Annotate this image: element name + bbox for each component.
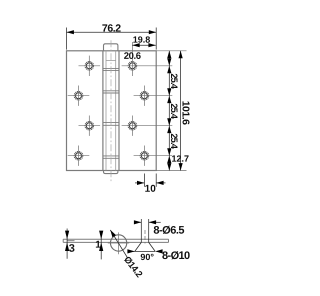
dimension 76.2	[66, 28, 68, 50]
dimension 101.6	[180, 51, 182, 171]
svg-text:90°: 90°	[140, 252, 154, 262]
dimension 8-O10 / angle chord	[129, 250, 156, 252]
svg-text:20.6: 20.6	[124, 51, 141, 62]
svg-text:25.4: 25.4	[169, 103, 179, 119]
svg-text:10: 10	[145, 184, 157, 195]
dimension 1	[100, 233, 102, 259]
hinge leaf outline (front view)	[67, 51, 157, 171]
knuckle barrel	[102, 51, 104, 171]
hole H3	[85, 121, 94, 130]
dimension 3 (leaf thickness)	[66, 229, 68, 259]
dimension 8-O6.5	[134, 221, 141, 223]
svg-text:1: 1	[95, 240, 101, 251]
svg-text:8-Ø10: 8-Ø10	[162, 250, 190, 262]
knuckle joint lines	[103, 67, 119, 69]
circle centerlines	[118, 232, 120, 254]
hinge pin centerline	[110, 40, 112, 183]
hole H7	[128, 121, 137, 130]
knuckle bottom cap	[104, 171, 118, 174]
hole H2	[74, 91, 83, 100]
hole H4	[74, 151, 83, 160]
countersunk hole section	[140, 219, 142, 242]
extension lines top edge right	[156, 50, 186, 52]
svg-text:25.4: 25.4	[169, 133, 179, 149]
svg-text:76.2: 76.2	[102, 23, 121, 35]
dimension 19.8	[132, 44, 156, 46]
svg-text:3: 3	[69, 243, 75, 255]
knuckle top cap	[104, 44, 118, 51]
vertical dimension column 25.4/12.7	[168, 51, 170, 171]
hole H5	[128, 62, 137, 71]
section: knuckle circle	[110, 235, 126, 251]
svg-text:8-Ø6.5: 8-Ø6.5	[153, 225, 184, 237]
dimension 10	[143, 174, 145, 187]
leader diameter 14.2	[110, 230, 127, 258]
countersink cone 90deg	[135, 242, 142, 251]
svg-text:25.4: 25.4	[169, 73, 179, 89]
svg-text:19.8: 19.8	[133, 35, 151, 45]
section: left leaf bar	[63, 238, 168, 240]
hole H1	[85, 62, 94, 71]
svg-text:101.6: 101.6	[179, 101, 191, 125]
hole H8	[140, 151, 149, 160]
extension line bottom edge right	[156, 170, 186, 172]
hole H6	[140, 91, 149, 100]
